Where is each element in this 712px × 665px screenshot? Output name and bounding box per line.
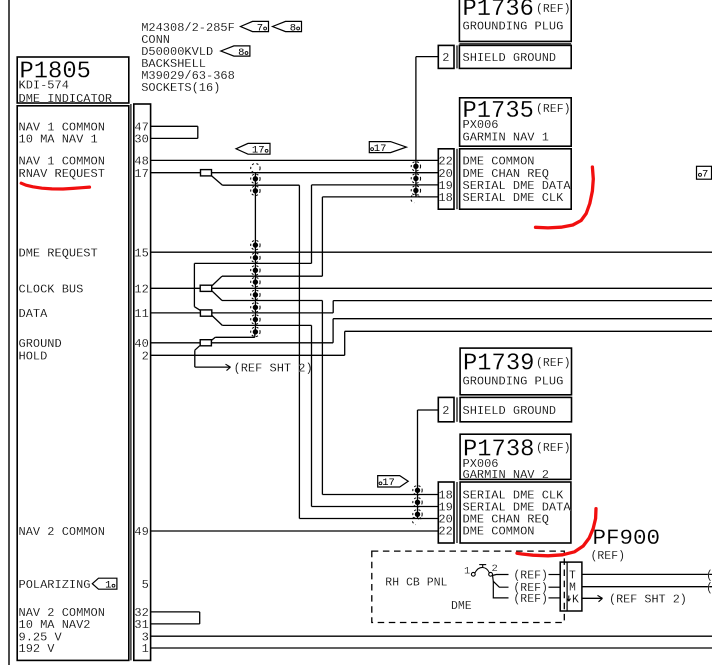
splice SP3 DATA <box>200 310 211 316</box>
wire 192V pin1 <box>151 647 712 649</box>
svg-text:18: 18 <box>438 191 452 205</box>
svg-text:T: T <box>569 569 576 582</box>
pin 2 SHIELD GROUND (P1739) <box>438 397 454 421</box>
connector P1805 KDI-574 DME INDICATOR <box>17 57 129 103</box>
wire vertical x322 lower to P1738 pin18 <box>321 301 323 495</box>
svg-text:17: 17 <box>382 477 395 489</box>
wire HOLD jog up <box>344 331 346 355</box>
svg-text:(REF): (REF) <box>536 103 571 116</box>
svg-text:RNAV REQUEST: RNAV REQUEST <box>19 167 105 181</box>
svg-text:(REF SHT 2): (REF SHT 2) <box>234 361 313 375</box>
connector P1735 PX006 GARMIN NAV 1 <box>460 98 572 146</box>
flag 7 at right edge <box>697 166 712 179</box>
flag 17 left (wire tag) <box>236 143 270 154</box>
wire shield tie stub <box>254 332 256 337</box>
wire into P1738 pin19 <box>312 506 439 508</box>
RH CB PNL dashed enclosure <box>372 551 565 622</box>
svg-text:NAV 2 COMMON: NAV 2 COMMON <box>19 525 105 539</box>
wire SP4 down-left diagonal <box>195 345 200 350</box>
wire vertical x299 to P1738 pin20 <box>298 185 300 518</box>
svg-text:HOLD: HOLD <box>19 350 48 364</box>
wire SP2 up diagonal <box>212 276 222 286</box>
svg-text:12: 12 <box>134 283 148 297</box>
wire NAV1 COMMON pin48 to P1735 pin22 <box>151 159 439 161</box>
svg-text:(REF): (REF) <box>591 550 626 563</box>
wire to REF SHT 2 <box>195 366 230 368</box>
wire y263 link <box>194 262 311 264</box>
svg-text:(REF): (REF) <box>536 442 571 455</box>
wire HOLD to right edge <box>345 330 712 332</box>
wire vertical x311 upper <box>311 185 313 264</box>
flag 7 (connector note) <box>241 21 269 31</box>
svg-text:5: 5 <box>142 578 149 592</box>
svg-text:SHIELD GROUND: SHIELD GROUND <box>463 404 557 418</box>
wire CLOCK BUS pin12 <box>151 287 201 289</box>
wire pin30 jumper <box>151 137 198 139</box>
svg-text:(REF): (REF) <box>536 357 571 370</box>
svg-text:GARMIN NAV 2: GARMIN NAV 2 <box>463 468 549 482</box>
svg-text:DME INDICATOR: DME INDICATOR <box>19 92 113 106</box>
connector P1739 grounding plug <box>460 348 571 395</box>
svg-text:SHIELD GROUND: SHIELD GROUND <box>463 51 557 65</box>
pin 2 SHIELD GROUND (P1736) <box>438 45 454 68</box>
P1735 pin box pins 22 20 19 18 <box>438 149 454 209</box>
svg-text:10 MA NAV 1: 10 MA NAV 1 <box>19 133 98 147</box>
svg-text:DME REQUEST: DME REQUEST <box>19 246 98 260</box>
svg-text:DME: DME <box>451 600 472 613</box>
wire T to right edge <box>582 573 712 575</box>
wire DATA up-branch diagonal <box>194 307 200 311</box>
svg-text:(: ( <box>706 582 712 595</box>
flag 17 right (NAV1 shield) <box>369 142 406 153</box>
wire y325 link <box>222 324 311 326</box>
svg-text:1: 1 <box>464 566 470 578</box>
wire CLOCK BUS continues right <box>212 287 712 289</box>
svg-text:RH CB PNL: RH CB PNL <box>385 577 447 590</box>
wire vertical x322 upper <box>321 197 323 276</box>
annotation red curve at P1735 <box>536 167 594 228</box>
wire into P1738 pin18 <box>322 494 438 496</box>
svg-text:GARMIN NAV 1: GARMIN NAV 1 <box>463 130 549 144</box>
jumper 32-31 link <box>199 612 201 624</box>
wire SP4 up diagonal <box>211 337 215 340</box>
svg-text:(REF SHT 2): (REF SHT 2) <box>609 592 687 606</box>
svg-text:GROUNDING PLUG: GROUNDING PLUG <box>463 20 564 34</box>
svg-text:KDI-574: KDI-574 <box>19 78 69 92</box>
wire pin32 jumper <box>151 611 200 613</box>
flag 8 (backshell note) <box>221 46 250 56</box>
terminal block T M K <box>560 562 582 611</box>
shield drain column with ground dots <box>254 173 256 332</box>
svg-text:2: 2 <box>442 51 449 65</box>
wire SP1 to P1735 pin20 <box>212 172 439 174</box>
svg-text:30: 30 <box>134 133 148 147</box>
flag 1 (POLARIZING) <box>92 578 117 589</box>
breaker fan-out wires <box>492 575 508 576</box>
svg-text:SERIAL DME CLK: SERIAL DME CLK <box>463 191 565 205</box>
wire DATA continues <box>212 312 333 314</box>
svg-text:7: 7 <box>257 22 263 34</box>
svg-text:22: 22 <box>438 525 452 539</box>
svg-text:SOCKETS(16): SOCKETS(16) <box>141 81 220 95</box>
svg-text:(REF): (REF) <box>513 593 548 606</box>
wire into P1735 pin19 <box>312 184 439 186</box>
svg-text:1: 1 <box>142 642 149 656</box>
wire SP2 down diagonal <box>212 291 222 301</box>
svg-text:17: 17 <box>374 143 387 155</box>
wire vertical x311 lower to P1738 pin19 <box>311 325 313 506</box>
wire y276 link <box>222 275 322 277</box>
svg-text:K: K <box>572 593 579 606</box>
svg-text:17: 17 <box>252 145 265 157</box>
svg-text:1: 1 <box>105 580 111 592</box>
wire shield tie y337 <box>215 336 255 338</box>
svg-text:2: 2 <box>442 404 449 418</box>
wire SP1 branch diagonal <box>212 176 223 186</box>
jumper 47-30 link <box>197 126 199 138</box>
flag 17 right (NAV2 shield) <box>378 476 409 487</box>
svg-text:17: 17 <box>134 167 148 181</box>
wire DATA pin11 <box>151 312 201 314</box>
svg-text:POLARIZING: POLARIZING <box>19 578 91 592</box>
svg-text:8: 8 <box>290 22 296 34</box>
wire vertical x194 upper <box>193 263 195 306</box>
svg-text:2: 2 <box>142 350 149 364</box>
svg-text:7: 7 <box>702 168 708 180</box>
wire DATA jog up <box>332 301 334 313</box>
wire y300 link <box>222 300 322 302</box>
wire NAV 2 COMMON pin49 to P1738 pin22 <box>151 530 439 532</box>
annotation red curve at P1738 PF900 <box>517 509 596 556</box>
shield drain to P1736 pin2 <box>415 57 417 198</box>
wire RNAV REQUEST pin17 <box>151 172 201 174</box>
P1738 pin box pins 18 19 20 22 <box>438 482 454 543</box>
wire 9.25V pin3 <box>151 635 712 637</box>
svg-text:192 V: 192 V <box>19 642 56 656</box>
connector P1736 grounding plug <box>459 0 571 41</box>
svg-text:49: 49 <box>134 525 148 539</box>
splice SP2 CLOCK BUS <box>200 285 212 291</box>
splice SP1 RNAV REQUEST <box>201 170 212 176</box>
wire GROUND continues <box>211 342 333 344</box>
splice SP4 GROUND <box>200 340 211 346</box>
wire pin47 jumper <box>151 125 198 127</box>
wire GROUND to right edge <box>333 318 712 320</box>
svg-text:DME COMMON: DME COMMON <box>463 525 535 539</box>
svg-text:DATA: DATA <box>19 307 49 321</box>
wire SP3 down diagonal <box>212 315 223 325</box>
wire K to REF SHT 2 <box>582 597 602 599</box>
arrow REF SHT 2 <box>226 364 231 370</box>
svg-text:(REF): (REF) <box>513 570 548 583</box>
wire M to right edge <box>582 586 712 588</box>
wire DME REQUEST pin15 <box>151 251 712 253</box>
wire HOLD pin2 <box>151 354 345 356</box>
wire vertical x194 lower <box>194 350 196 367</box>
svg-text:CLOCK BUS: CLOCK BUS <box>19 283 84 297</box>
svg-text:GROUNDING PLUG: GROUNDING PLUG <box>463 374 564 388</box>
annotation red underline RNAV REQUEST <box>21 183 89 189</box>
svg-text:PF900: PF900 <box>593 525 661 551</box>
flag 8 (connector note) <box>273 21 302 31</box>
svg-text:(: ( <box>706 570 712 583</box>
svg-text:11: 11 <box>134 307 148 321</box>
svg-text:(REF): (REF) <box>536 3 571 16</box>
connector P1738 PX006 GARMIN NAV 2 <box>460 434 571 479</box>
wire into P1738 pin20 <box>299 518 438 520</box>
wire into P1735 pin18 <box>322 196 438 198</box>
wire pin31 jumper <box>151 623 200 625</box>
shield drain to P1739 pin2 <box>417 410 419 519</box>
svg-text:15: 15 <box>134 246 148 260</box>
wire DATA to right edge <box>333 300 712 302</box>
wire GROUND pin40 <box>151 342 201 344</box>
wire GROUND jog up <box>332 319 334 343</box>
wire branch y185 left <box>223 184 300 186</box>
svg-text:8: 8 <box>238 47 244 59</box>
